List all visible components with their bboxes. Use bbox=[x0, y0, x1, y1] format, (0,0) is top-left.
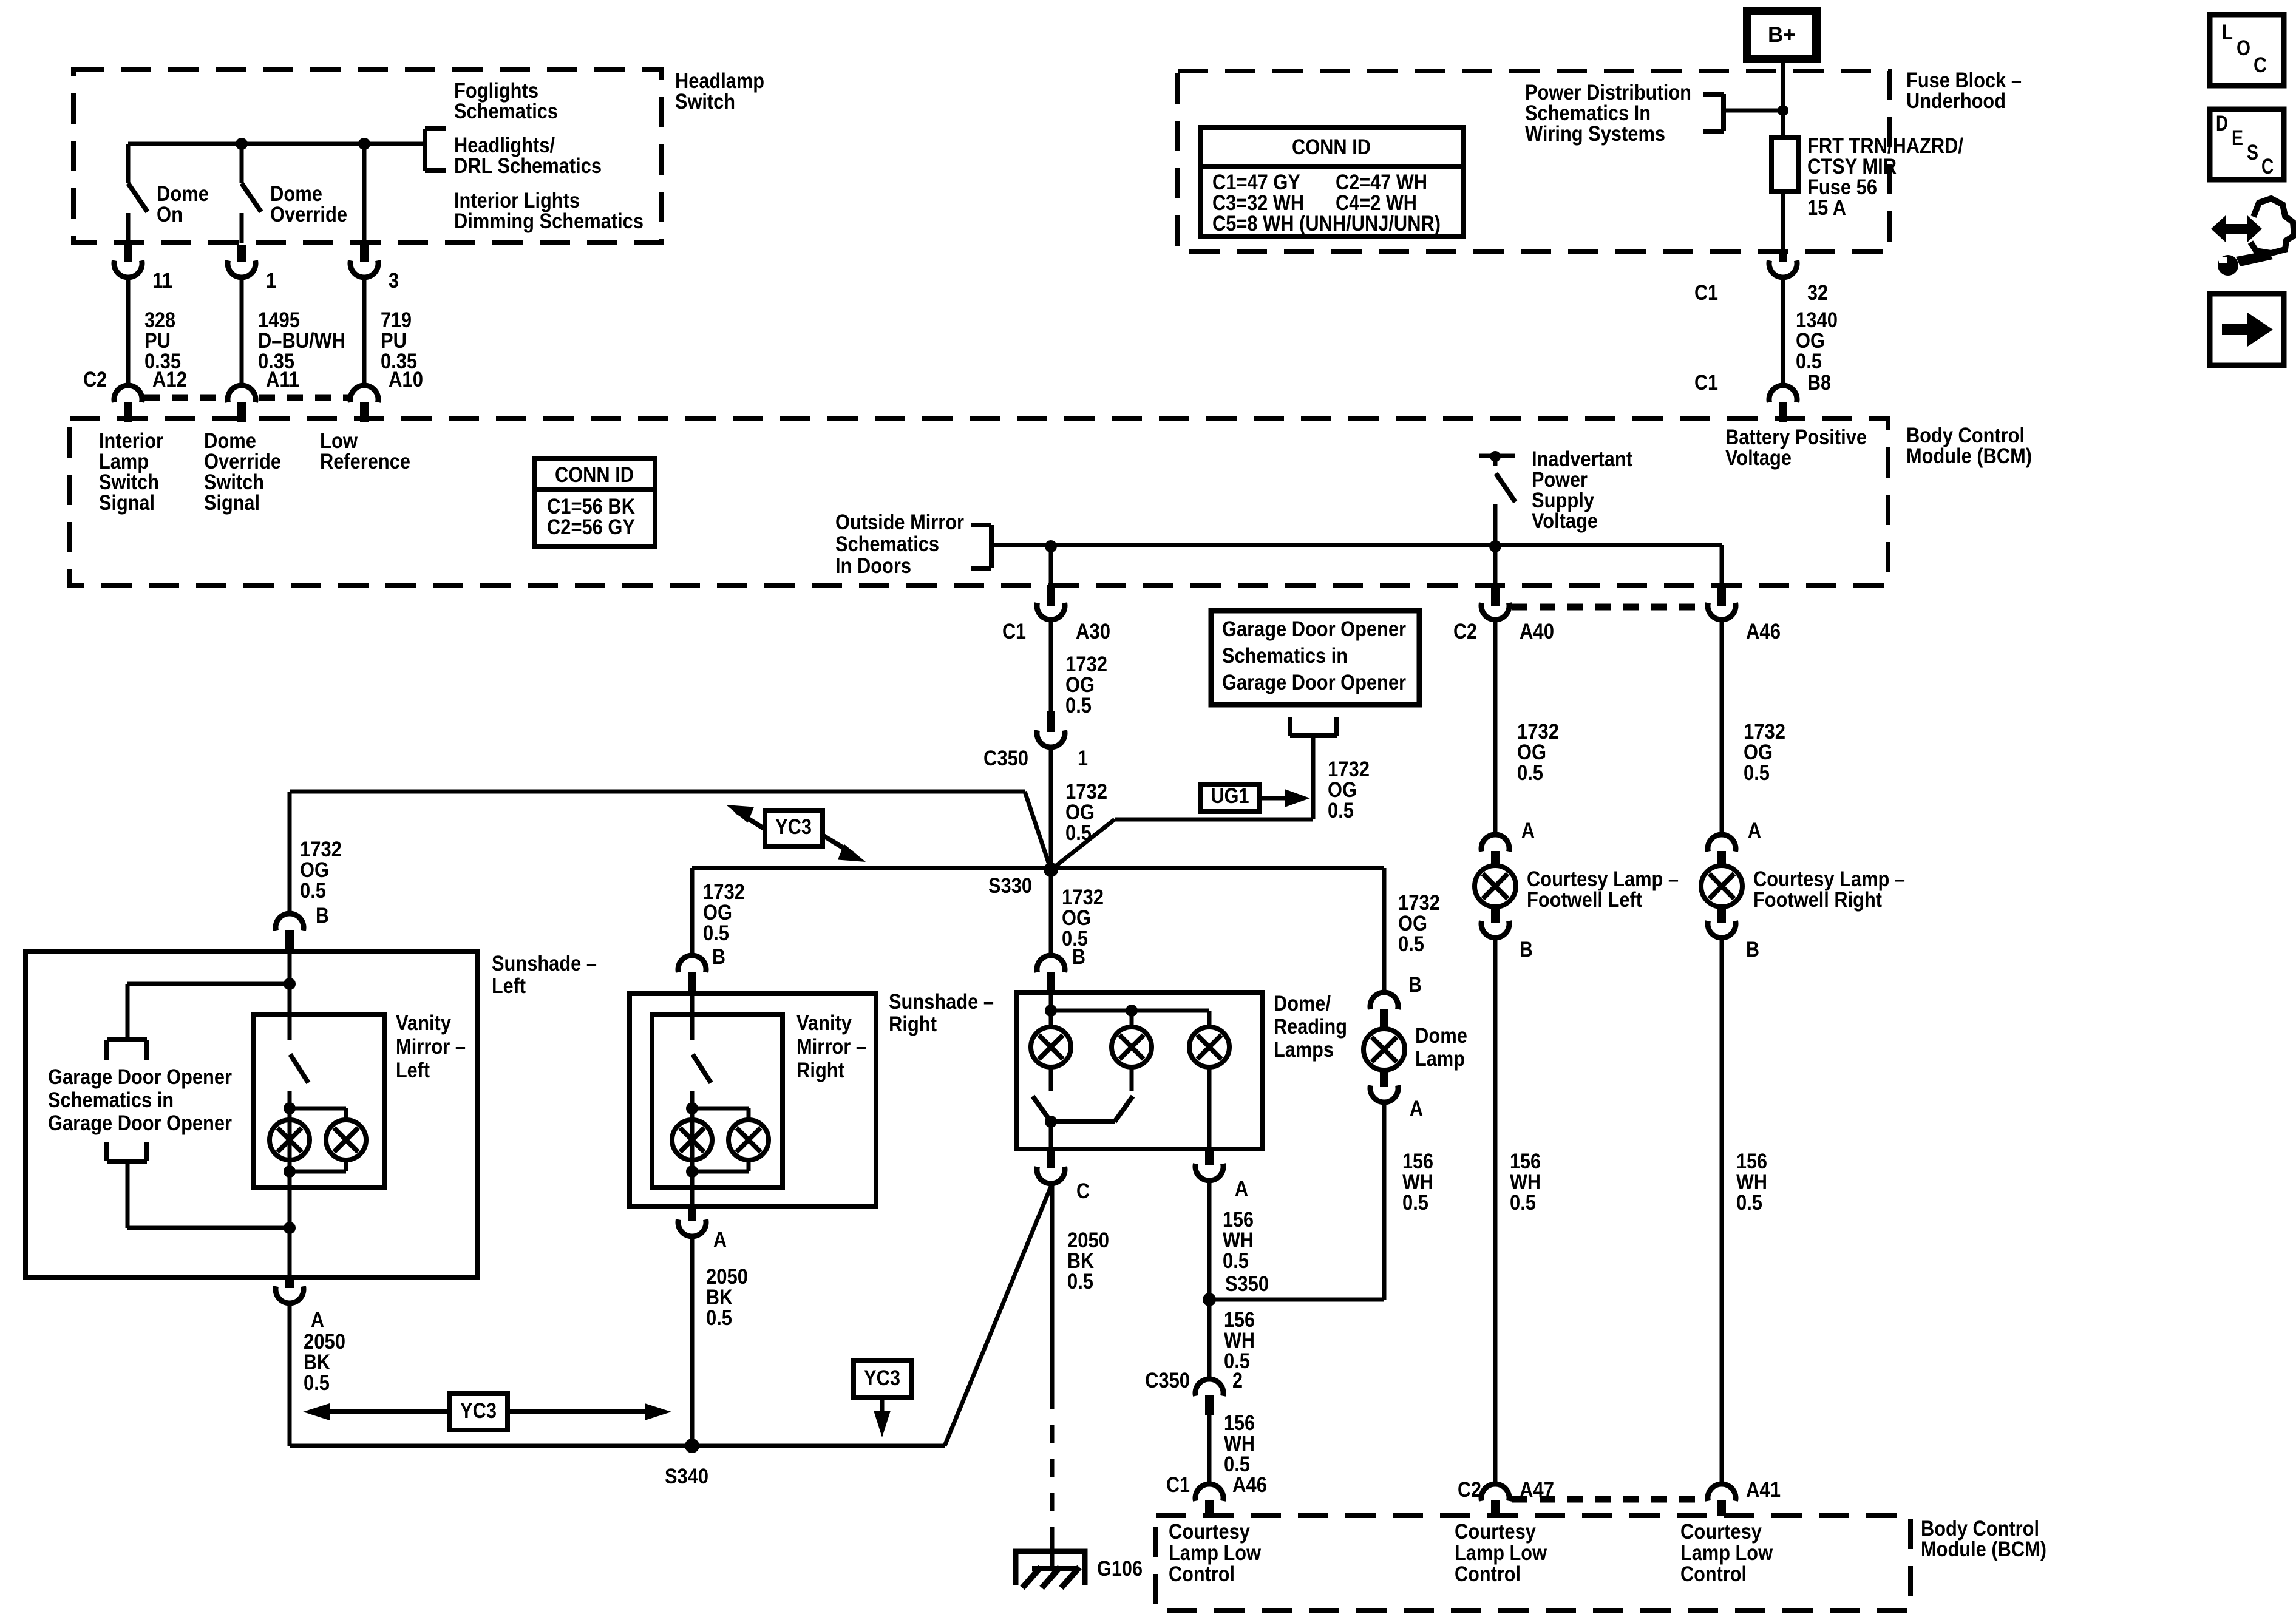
svg-text:Vanity: Vanity bbox=[396, 1011, 451, 1035]
svg-text:Dimming Schematics: Dimming Schematics bbox=[454, 209, 644, 233]
svg-text:Schematics in: Schematics in bbox=[1222, 644, 1348, 668]
svg-text:0.5: 0.5 bbox=[1517, 761, 1543, 785]
Body Control Module dashed box bbox=[70, 419, 1888, 585]
dotted connector row A40-A46 bbox=[1512, 604, 1706, 611]
courtesy lamp footwell left column (C2 A40 / C2 A47) bbox=[1491, 585, 1500, 606]
svg-text:1: 1 bbox=[266, 269, 276, 293]
svg-text:A: A bbox=[1748, 819, 1761, 842]
wire S330 horizontal left to sunshade right bbox=[692, 866, 1051, 870]
svg-text:C: C bbox=[2261, 155, 2274, 178]
svg-text:Garage Door Opener: Garage Door Opener bbox=[48, 1065, 232, 1089]
sunshade left box bbox=[25, 952, 477, 1278]
svg-text:Schematics: Schematics bbox=[835, 532, 939, 556]
svg-text:Reading: Reading bbox=[1274, 1015, 1347, 1039]
wire 2050 BK to S340 (diagonal) bbox=[945, 1184, 1052, 1446]
svg-text:Left: Left bbox=[492, 974, 526, 998]
svg-text:0.5: 0.5 bbox=[703, 921, 729, 945]
svg-text:Mirror –: Mirror – bbox=[796, 1035, 866, 1059]
ground G106 bbox=[1050, 1534, 1055, 1568]
svg-text:0.5: 0.5 bbox=[1510, 1191, 1536, 1215]
garage door opener tap upper bbox=[284, 978, 296, 990]
svg-text:Reference: Reference bbox=[320, 450, 410, 473]
connector C1 A30 bbox=[1047, 585, 1055, 606]
wire: BCM internal bus bbox=[991, 543, 1722, 547]
wire: headlamp switch internal bus bbox=[128, 142, 425, 146]
svg-text:Module (BCM): Module (BCM) bbox=[1906, 444, 2032, 468]
svg-text:B: B bbox=[1072, 945, 1085, 969]
svg-text:Control: Control bbox=[1455, 1562, 1521, 1586]
connector B dome/reading bbox=[1037, 955, 1065, 972]
reading lamp 3 bbox=[1189, 1027, 1229, 1067]
icon forward arrow box bbox=[2210, 294, 2284, 365]
node: junction dome override bbox=[236, 138, 248, 150]
wire to A connector bbox=[288, 1188, 292, 1278]
connector pin 11 at headlamp switch bbox=[124, 245, 132, 262]
svg-text:B: B bbox=[1408, 973, 1422, 997]
svg-text:A30: A30 bbox=[1076, 620, 1110, 643]
wire garage door opener tail bbox=[1311, 736, 1316, 819]
svg-text:Schematics in: Schematics in bbox=[48, 1088, 174, 1112]
svg-text:Wiring Systems: Wiring Systems bbox=[1525, 122, 1665, 146]
svg-text:B+: B+ bbox=[1768, 23, 1796, 47]
bracket to schematics refs bbox=[423, 129, 427, 171]
svg-text:B: B bbox=[712, 945, 725, 969]
svg-text:Courtesy: Courtesy bbox=[1169, 1520, 1250, 1544]
svg-text:3: 3 bbox=[389, 269, 399, 293]
wire 2050 BK to ground (dashed) bbox=[1050, 1184, 1055, 1391]
svg-text:B: B bbox=[1520, 938, 1533, 961]
svg-text:Courtesy: Courtesy bbox=[1680, 1520, 1762, 1544]
connector A dome lamp bbox=[1380, 1070, 1388, 1087]
svg-text:0.5: 0.5 bbox=[300, 879, 326, 903]
svg-text:YC3: YC3 bbox=[775, 815, 812, 839]
vanity mirror left box bbox=[254, 1014, 384, 1188]
headlamp switch dashed box bbox=[73, 69, 661, 243]
svg-text:Control: Control bbox=[1169, 1562, 1235, 1586]
svg-text:D: D bbox=[2216, 112, 2228, 135]
connector A dome/reading bbox=[1205, 1149, 1214, 1165]
svg-text:Outside Mirror: Outside Mirror bbox=[835, 510, 964, 534]
svg-text:S350: S350 bbox=[1225, 1272, 1269, 1296]
svg-text:C2: C2 bbox=[1453, 620, 1477, 643]
svg-text:Garage Door Opener: Garage Door Opener bbox=[1222, 617, 1406, 641]
fuse block underhood dashed box bbox=[1178, 71, 1890, 251]
wire S330 to sunshade left bbox=[1025, 792, 1051, 870]
svg-text:Schematics: Schematics bbox=[454, 100, 558, 123]
svg-text:Voltage: Voltage bbox=[1725, 446, 1792, 470]
connector pin A12 BCM bbox=[114, 385, 142, 402]
svg-text:E: E bbox=[2232, 126, 2243, 150]
connector pin A10 BCM bbox=[350, 385, 378, 402]
svg-text:CONN ID: CONN ID bbox=[555, 463, 634, 487]
svg-text:C2=56 GY: C2=56 GY bbox=[547, 515, 635, 539]
wire S330 down to dome/reading lamps bbox=[1049, 870, 1053, 955]
wire into vanity bbox=[288, 952, 292, 992]
svg-text:0.5: 0.5 bbox=[1796, 350, 1822, 373]
svg-text:Footwell Left: Footwell Left bbox=[1527, 888, 1642, 912]
svg-text:G106: G106 bbox=[1097, 1557, 1143, 1581]
connector C350 pin 1 bbox=[1047, 711, 1055, 732]
svg-text:Lamp: Lamp bbox=[1415, 1047, 1465, 1071]
svg-text:C1: C1 bbox=[1694, 371, 1718, 395]
svg-text:15 A: 15 A bbox=[1807, 196, 1846, 220]
connector pin 1 at headlamp switch bbox=[237, 245, 246, 262]
svg-text:Voltage: Voltage bbox=[1532, 509, 1598, 533]
svg-text:C350: C350 bbox=[983, 747, 1028, 770]
YC3 double arrow marker bbox=[316, 1409, 448, 1414]
svg-text:0.5: 0.5 bbox=[1065, 694, 1092, 717]
dome lamp bbox=[1364, 1029, 1405, 1070]
wire S340 horizontal bbox=[290, 1444, 945, 1448]
svg-text:Courtesy: Courtesy bbox=[1455, 1520, 1536, 1544]
svg-text:0.5: 0.5 bbox=[1328, 799, 1354, 822]
svg-text:L: L bbox=[2222, 21, 2233, 44]
svg-text:Override: Override bbox=[270, 203, 347, 226]
splice S350 bbox=[1203, 1293, 1216, 1306]
bracket outside mirror schematics bbox=[989, 525, 994, 568]
YC3 connector marker (diagonal double arrow) bbox=[736, 811, 765, 829]
svg-text:A40: A40 bbox=[1520, 620, 1554, 643]
svg-text:S340: S340 bbox=[665, 1465, 708, 1488]
B+ battery positive terminal box bbox=[1747, 11, 1816, 59]
svg-text:C5=8 WH (UNH/UNJ/UNR): C5=8 WH (UNH/UNJ/UNR) bbox=[1212, 212, 1441, 236]
svg-text:Left: Left bbox=[396, 1059, 430, 1082]
svg-text:CONN ID: CONN ID bbox=[1292, 135, 1371, 159]
connector pin 3 at headlamp switch bbox=[360, 245, 369, 262]
courtesy lamp footwell right column (A46 / A41) bbox=[1717, 585, 1726, 606]
bracket below garage door opener box bbox=[1288, 717, 1292, 736]
UG1 reference box with arrow bbox=[1201, 785, 1260, 812]
connector B sunshade right bbox=[678, 955, 706, 972]
svg-text:Vanity: Vanity bbox=[796, 1011, 852, 1035]
icon DESC box bbox=[2210, 109, 2284, 180]
connector C1 32 (fuse block exit) bbox=[1779, 253, 1787, 262]
connector pin A11 BCM bbox=[228, 385, 256, 402]
svg-text:A: A bbox=[311, 1308, 324, 1332]
svg-text:Lamp Low: Lamp Low bbox=[1680, 1541, 1773, 1565]
svg-text:Sunshade –: Sunshade – bbox=[492, 952, 597, 975]
connector A sunshade left bbox=[285, 1278, 294, 1288]
garage door opener tap lower bbox=[126, 1161, 130, 1228]
wire diagonal to S330 bbox=[1051, 819, 1115, 870]
svg-text:0.5: 0.5 bbox=[1223, 1249, 1249, 1273]
svg-text:Right: Right bbox=[889, 1012, 937, 1036]
splice S330 bbox=[1044, 863, 1058, 877]
svg-text:0.5: 0.5 bbox=[706, 1306, 732, 1330]
svg-text:A: A bbox=[1521, 819, 1535, 842]
svg-text:A12: A12 bbox=[152, 368, 187, 392]
svg-text:Signal: Signal bbox=[204, 491, 260, 515]
garage door opener reference box bbox=[1211, 611, 1419, 705]
svg-text:Sunshade –: Sunshade – bbox=[889, 990, 994, 1014]
svg-text:Signal: Signal bbox=[99, 491, 155, 515]
svg-text:11: 11 bbox=[152, 269, 172, 293]
svg-text:S: S bbox=[2247, 141, 2258, 164]
svg-text:A10: A10 bbox=[389, 368, 423, 392]
svg-text:C2: C2 bbox=[83, 368, 107, 392]
wire below fuse bbox=[1781, 192, 1785, 253]
svg-text:C1: C1 bbox=[1166, 1473, 1190, 1497]
svg-text:0.5: 0.5 bbox=[1398, 932, 1424, 956]
svg-text:B: B bbox=[1746, 938, 1759, 961]
dome/reading lamps box bbox=[1017, 992, 1263, 1149]
sunshade right box bbox=[630, 994, 876, 1207]
svg-text:1: 1 bbox=[1078, 747, 1088, 770]
lamps bus bbox=[1049, 992, 1053, 1027]
svg-text:A46: A46 bbox=[1232, 1473, 1267, 1497]
wire S330 horizontal right to dome lamp bbox=[1051, 866, 1384, 870]
dotted connector row line C2 bbox=[144, 395, 225, 401]
svg-text:Dome/: Dome/ bbox=[1274, 992, 1331, 1015]
svg-text:Right: Right bbox=[796, 1059, 844, 1082]
switch Dome On bbox=[126, 144, 131, 183]
svg-text:A: A bbox=[1235, 1177, 1248, 1201]
reading lamp 1 bbox=[1031, 1027, 1071, 1067]
CONN ID table (BCM) bbox=[534, 458, 655, 547]
svg-text:On: On bbox=[157, 203, 183, 226]
splice S340 bbox=[685, 1439, 699, 1453]
svg-text:Garage Door Opener: Garage Door Opener bbox=[1222, 671, 1406, 694]
svg-text:C350: C350 bbox=[1145, 1369, 1190, 1392]
svg-text:0.5: 0.5 bbox=[304, 1371, 330, 1395]
svg-text:DRL Schematics: DRL Schematics bbox=[454, 154, 602, 178]
bracket upper (garage door opener) bbox=[107, 1037, 147, 1042]
reading lamp 2 bbox=[1112, 1027, 1152, 1067]
wire to A connector bbox=[690, 1188, 695, 1207]
svg-text:B: B bbox=[316, 904, 329, 927]
wire A40 down from bus / inadvertant power bbox=[1493, 504, 1498, 584]
node junction A40 wire bbox=[1489, 540, 1501, 552]
svg-text:Underhood: Underhood bbox=[1906, 89, 2006, 113]
svg-text:Dome: Dome bbox=[1415, 1024, 1467, 1048]
svg-text:Garage Door Opener: Garage Door Opener bbox=[48, 1111, 232, 1135]
svg-text:C2: C2 bbox=[1458, 1478, 1481, 1502]
svg-text:C1: C1 bbox=[1694, 281, 1718, 305]
svg-text:C: C bbox=[1076, 1179, 1090, 1203]
svg-text:Control: Control bbox=[1680, 1562, 1747, 1586]
svg-text:2: 2 bbox=[1232, 1369, 1243, 1392]
fuse FRT TRN/HAZRD/CTSY MIR Fuse 56 15A bbox=[1771, 137, 1799, 192]
icon wiring repair (arrow + connector + wrench) bbox=[2211, 215, 2262, 242]
svg-text:Footwell Right: Footwell Right bbox=[1753, 888, 1882, 912]
node junction A30 wire bbox=[1045, 540, 1057, 552]
svg-text:Lamp Low: Lamp Low bbox=[1169, 1541, 1262, 1565]
CONN ID table (fuse block) bbox=[1200, 127, 1463, 237]
body control module (bottom) dashed box bbox=[1156, 1516, 1911, 1610]
dotted connector row A47-A41 bbox=[1512, 1496, 1706, 1503]
bracket power distribution bbox=[1721, 94, 1726, 131]
switch inadvertant power supply bbox=[1479, 454, 1515, 458]
wire from B+ down bbox=[1781, 59, 1785, 137]
svg-text:O: O bbox=[2237, 36, 2250, 60]
svg-text:A41: A41 bbox=[1746, 1478, 1781, 1502]
bracket lower (garage door opener) bbox=[104, 1142, 109, 1161]
svg-text:In Doors: In Doors bbox=[835, 554, 911, 578]
wire low reference bbox=[362, 144, 367, 243]
vanity mirror right box bbox=[652, 1014, 783, 1188]
wire A30 down from bus bbox=[1049, 546, 1053, 584]
svg-text:Mirror –: Mirror – bbox=[396, 1035, 466, 1059]
svg-text:0.5: 0.5 bbox=[1067, 1270, 1093, 1293]
svg-text:S330: S330 bbox=[988, 874, 1032, 898]
svg-text:A11: A11 bbox=[266, 368, 299, 392]
connector C dome/reading bbox=[1047, 1149, 1055, 1168]
svg-text:0.5: 0.5 bbox=[1402, 1191, 1428, 1215]
connector A sunshade right bbox=[688, 1207, 696, 1221]
svg-text:C1: C1 bbox=[1002, 620, 1026, 643]
svg-text:0.5: 0.5 bbox=[1736, 1191, 1762, 1215]
svg-text:A: A bbox=[1410, 1097, 1423, 1120]
svg-text:Module (BCM): Module (BCM) bbox=[1921, 1537, 2046, 1561]
icon LOC box bbox=[2210, 15, 2284, 86]
svg-text:Switch: Switch bbox=[675, 90, 735, 114]
svg-text:YC3: YC3 bbox=[864, 1366, 900, 1390]
wire corner down to A46 bbox=[1720, 545, 1724, 584]
svg-text:B8: B8 bbox=[1807, 371, 1831, 395]
svg-text:C: C bbox=[2254, 53, 2267, 77]
svg-text:YC3: YC3 bbox=[460, 1399, 497, 1423]
node: junction low reference bbox=[358, 138, 370, 150]
dome lamp switch bbox=[1045, 1116, 1057, 1128]
svg-text:Lamp Low: Lamp Low bbox=[1455, 1541, 1547, 1565]
svg-text:A: A bbox=[713, 1228, 727, 1252]
switch Dome Override bbox=[240, 144, 244, 183]
svg-text:0.5: 0.5 bbox=[1744, 761, 1770, 785]
svg-text:UG1: UG1 bbox=[1211, 784, 1249, 808]
connector B sunshade left bbox=[276, 914, 304, 931]
svg-text:Lamps: Lamps bbox=[1274, 1038, 1334, 1062]
svg-text:32: 32 bbox=[1807, 281, 1828, 305]
svg-text:A46: A46 bbox=[1746, 620, 1781, 643]
YC3 down arrow marker bbox=[854, 1361, 911, 1397]
